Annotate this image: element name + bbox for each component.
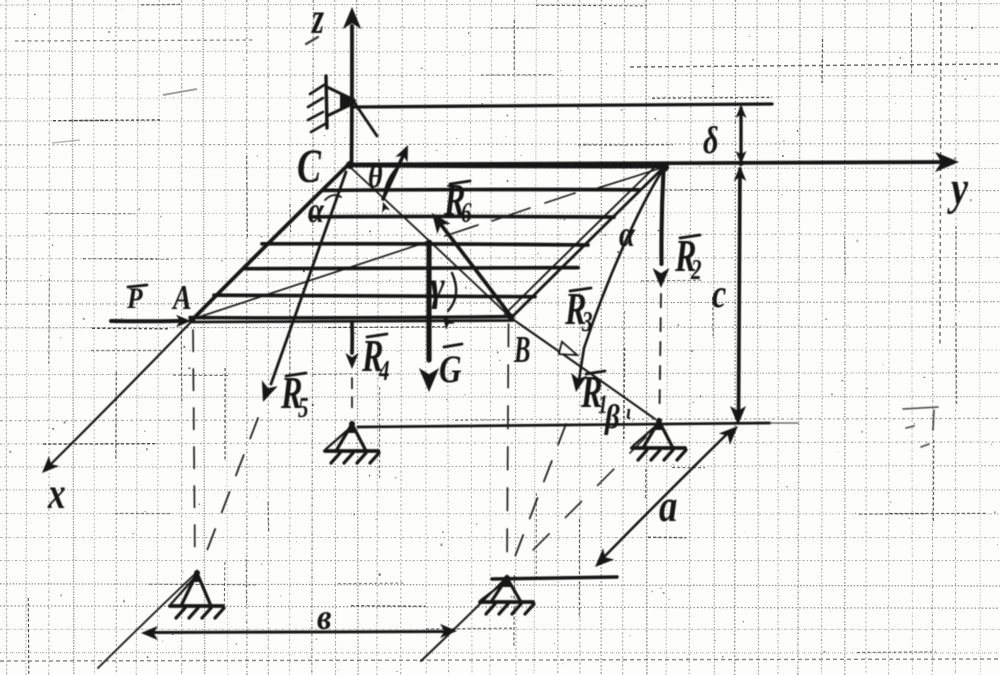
alpha angle arc at C [325, 195, 341, 200]
svg-text:δ: δ [703, 120, 719, 162]
wire extension diagonal right [421, 579, 505, 661]
svg-text:6: 6 [461, 198, 472, 229]
dimension line c [739, 169, 741, 416]
wire front floor segment [492, 577, 617, 579]
svg-text:θ: θ [368, 158, 383, 195]
node B [508, 314, 515, 321]
label R5 [286, 373, 306, 376]
label R6 [450, 181, 470, 184]
plate top edge C to corner [348, 165, 665, 166]
node delta-c junction [738, 160, 744, 166]
force R2 [661, 170, 663, 264]
label G [444, 344, 462, 347]
rod R1 from corner [579, 168, 664, 380]
dashed continuation of R5 to support [250, 418, 258, 438]
svg-text:α: α [308, 191, 325, 231]
svg-text:ι: ι [626, 401, 631, 425]
rod direction arrow at theta [383, 156, 403, 199]
svg-text:C: C [297, 140, 322, 193]
y axis [350, 162, 950, 165]
dashed vertical from corner to support [660, 294, 662, 307]
plate right edge corner to B inner [505, 164, 658, 314]
open arrowhead on rod R3 [559, 342, 577, 355]
node C [346, 161, 354, 169]
svg-text:a: a [659, 481, 677, 532]
diagonal A to corner dashed half [445, 225, 478, 236]
wire top horizontal line [354, 104, 772, 107]
svg-text:в: в [317, 597, 331, 637]
plate right edge corner to B outer [511, 167, 664, 318]
wall support at z axis [306, 37, 377, 136]
gamma angle arc [448, 273, 456, 311]
support front right [480, 574, 534, 614]
x axis [48, 321, 192, 467]
dashed continuation of rod R1 to support [558, 424, 566, 444]
diagonal A to corner solid half [193, 241, 430, 319]
force R6 [442, 226, 510, 315]
node plate center [426, 240, 433, 247]
svg-text:5: 5 [298, 393, 309, 424]
dimension line a [602, 433, 728, 559]
diagonal C to B [350, 167, 509, 316]
node A [189, 317, 196, 324]
dimension line b [150, 632, 449, 633]
svg-text:P: P [126, 282, 143, 315]
dashed base edge right [630, 437, 646, 453]
label R1 [586, 371, 605, 374]
force P [111, 319, 178, 323]
theta angle arc [384, 165, 400, 197]
svg-text:γ: γ [430, 263, 446, 309]
plate bottom edge A to B outer [190, 317, 512, 318]
force R5 [271, 172, 346, 384]
rod R3 from B to support [511, 318, 655, 419]
svg-text:x: x [47, 468, 65, 518]
wire rear floor line [358, 423, 770, 427]
svg-text:A: A [171, 278, 191, 317]
z axis [350, 26, 354, 166]
dashed vertical below B [507, 324, 509, 347]
svg-text:β: β [604, 398, 620, 436]
plate bottom edge A to B inner [193, 321, 513, 323]
plate hatch line y=217 [310, 215, 614, 219]
node corner at y axis [659, 162, 669, 172]
wire extension diagonal left [98, 573, 196, 668]
diagonal near corner [598, 167, 664, 188]
force G [426, 244, 431, 360]
dashed vertical below A [192, 330, 194, 351]
label R2 [680, 235, 700, 238]
svg-text:α: α [619, 215, 636, 255]
dimension line delta [739, 108, 742, 158]
label R4 [367, 334, 387, 337]
dashed line R4 to support [351, 378, 353, 388]
label P [128, 285, 147, 287]
svg-text:4: 4 [378, 356, 389, 387]
svg-text:2: 2 [690, 255, 701, 286]
force R4 [350, 323, 354, 353]
svg-text:3: 3 [581, 307, 592, 338]
support front left [170, 569, 224, 618]
plate left edge C to A [192, 165, 348, 320]
label R3 [570, 288, 591, 291]
stray scan marks [903, 407, 938, 447]
svg-text:c: c [712, 272, 726, 316]
svg-text:G: G [439, 348, 462, 391]
plate hatch line y=190 [324, 188, 640, 193]
support under R4 [325, 420, 379, 463]
plate hatch line y=244 [262, 244, 588, 245]
plate hatch line y=296 [214, 295, 535, 297]
support mid right [632, 417, 686, 460]
wire rear floor faint extension [770, 422, 798, 424]
svg-text:B: B [513, 328, 530, 371]
plate hatch line y=268 [245, 268, 578, 269]
